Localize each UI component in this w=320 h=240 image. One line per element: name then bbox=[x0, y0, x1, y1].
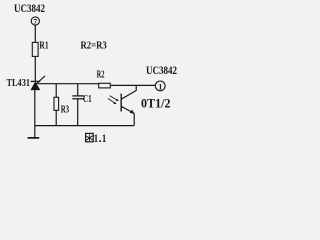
wire R1 to TL431 cathode bbox=[34, 57, 36, 82]
svg-text:1: 1 bbox=[94, 131, 98, 145]
svg-text:R2=R3: R2=R3 bbox=[81, 39, 108, 51]
svg-text:1: 1 bbox=[158, 82, 162, 91]
svg-text:R2: R2 bbox=[97, 68, 105, 80]
svg-text:R3: R3 bbox=[61, 104, 70, 116]
wire R3 top stub bbox=[55, 84, 57, 98]
resistor R2 bbox=[99, 83, 111, 88]
wire collector drop bbox=[121, 85, 136, 99]
svg-text:UC3842: UC3842 bbox=[146, 63, 177, 77]
wire C1 top stub bbox=[77, 84, 79, 96]
light arrow 2 bbox=[108, 99, 117, 105]
opto-transistor OT1/2 bbox=[121, 94, 134, 114]
svg-text:UC3842: UC3842 bbox=[14, 1, 45, 15]
TL431 shunt regulator U2 bbox=[31, 76, 46, 90]
svg-text:1: 1 bbox=[102, 131, 106, 145]
feedback wire TL431 to R2 bbox=[38, 83, 99, 85]
capacitor C1 bbox=[72, 96, 83, 99]
svg-text:0T1/2: 0T1/2 bbox=[141, 96, 171, 110]
bottom rail wire bbox=[35, 125, 134, 127]
wire R3 bottom to rail bbox=[55, 110, 57, 125]
svg-text:TL431: TL431 bbox=[7, 77, 31, 89]
wire pin7 to R1 bbox=[34, 25, 36, 42]
ground bbox=[28, 137, 40, 139]
svg-text:7: 7 bbox=[33, 17, 37, 26]
wire TL431 anode down to ground bbox=[34, 90, 36, 138]
svg-text:C1: C1 bbox=[83, 93, 92, 105]
resistor R3 bbox=[54, 97, 59, 110]
light arrow 1 bbox=[110, 96, 119, 101]
wire emitter to rail bbox=[133, 113, 135, 125]
pin 7 terminal (circled 7) bbox=[31, 17, 39, 26]
resistor R1 bbox=[32, 42, 38, 56]
caption figure glyph (Chinese 'tu') bbox=[86, 133, 94, 141]
svg-text:R1: R1 bbox=[39, 40, 48, 52]
pin 1 terminal (circled 1) bbox=[155, 81, 165, 91]
wire R2 to pin1 bbox=[111, 84, 156, 86]
wire C1 bottom to rail bbox=[77, 99, 79, 126]
